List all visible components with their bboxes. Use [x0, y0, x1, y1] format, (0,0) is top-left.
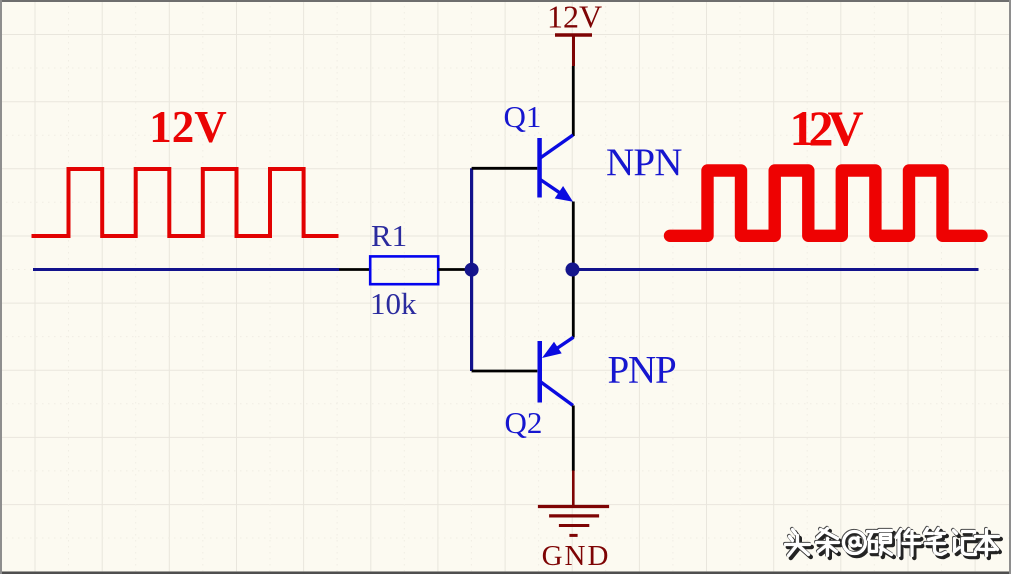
svg-text:PNP: PNP — [608, 349, 676, 392]
output square wave 12V — [670, 171, 982, 236]
node junction left — [465, 263, 479, 277]
node junction output — [566, 263, 580, 277]
transistor Q2 PNP — [538, 337, 574, 405]
svg-text:NPN: NPN — [606, 141, 682, 184]
power stem — [572, 35, 575, 66]
wire Q2 base pin — [472, 370, 538, 373]
watermark — [785, 528, 1001, 558]
wire Q2 collector pin — [572, 406, 575, 472]
wire power to collector — [572, 66, 575, 136]
svg-text:12V: 12V — [149, 102, 227, 152]
wire resistor right pin — [438, 268, 466, 271]
resistor R1 — [370, 256, 438, 284]
wire output horizontal — [573, 268, 979, 271]
ground bars — [538, 507, 609, 536]
frame edges — [0, 0, 1011, 2]
svg-text:GND: GND — [542, 540, 611, 572]
wire Q1 emitter pin — [572, 202, 575, 265]
svg-text:Q1: Q1 — [504, 99, 542, 134]
svg-text:Q2: Q2 — [505, 405, 543, 440]
wire resistor left pin — [339, 268, 371, 271]
power bar — [555, 33, 592, 36]
transistor Q1 NPN — [537, 135, 573, 202]
wire Q1 base pin — [472, 167, 538, 170]
svg-text:10k: 10k — [370, 286, 417, 321]
svg-text:12V: 12V — [789, 100, 863, 156]
wire base vertical — [470, 168, 473, 371]
wire input horizontal — [33, 268, 339, 271]
ground stem — [572, 471, 575, 506]
wire Q2 emitter pin — [572, 270, 575, 338]
svg-text:R1: R1 — [371, 218, 407, 253]
input square wave 12V — [32, 169, 339, 236]
svg-text:12V: 12V — [547, 0, 602, 35]
